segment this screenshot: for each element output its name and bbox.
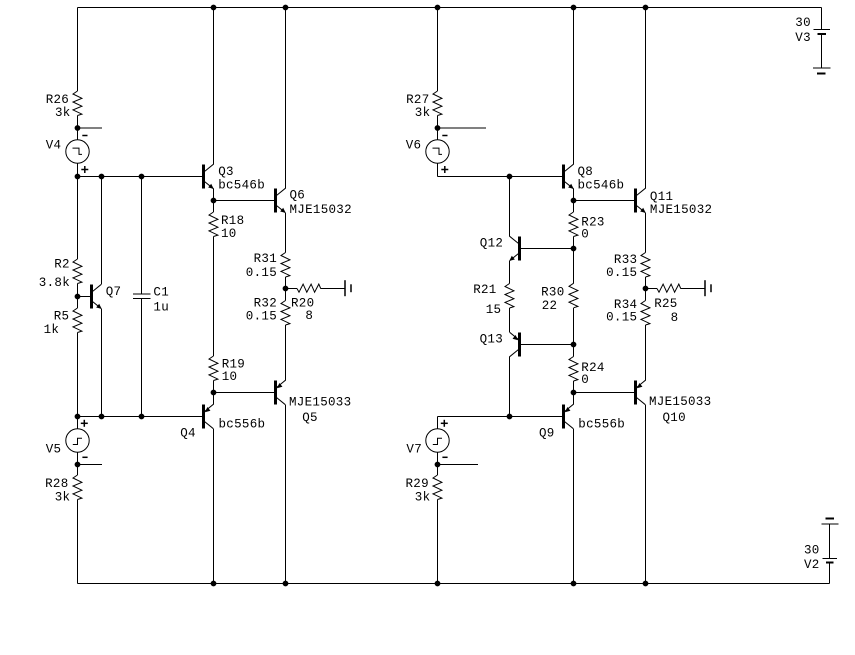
resistor R28 3k [45,475,82,504]
transistor Q10 MJE15033 [634,380,711,425]
svg-text:R29: R29 [406,477,429,491]
wire R26 to V4 [77,116,79,140]
wire R34 to Q10 emitter [645,325,647,380]
wire V7 plus row to Q9 base [438,416,563,418]
svg-text:0: 0 [581,228,589,242]
node bottom rail / Q10 collector [643,581,648,586]
svg-text:0.15: 0.15 [246,266,277,280]
resistor R34 0.15 [606,298,650,325]
node Q3 emitter / Q6 base [211,198,216,203]
svg-text:Q7: Q7 [106,285,122,299]
capacitor C1 1u [133,177,169,417]
wire Q11 collector to top rail [645,8,647,189]
svg-text:Q5: Q5 [302,411,318,425]
svg-text:10: 10 [222,370,238,384]
node R27/V6 [435,126,440,131]
wire Q9 collector to bottom rail [573,429,575,584]
svg-text:V2: V2 [804,558,820,572]
wire R21 to Q13 emitter [509,308,511,332]
resistor R27 3k [406,91,442,120]
svg-text:V6: V6 [406,139,422,153]
resistor R24 0 [569,357,605,388]
svg-text:15: 15 [486,303,502,317]
svg-text:Q6: Q6 [290,188,306,202]
svg-text:3k: 3k [55,490,71,504]
wire left rail top [77,8,79,92]
svg-text:R2: R2 [54,258,70,272]
node R19 / Q5 base / Q4 emitter [211,390,216,395]
wire node to R18 [213,201,215,213]
svg-text:3k: 3k [415,106,431,120]
node C1 bottom [139,414,144,419]
svg-text:Q11: Q11 [650,190,673,204]
node C1 top [139,174,144,179]
wire R33 to output node [645,277,647,301]
ground above V2 [822,519,839,525]
svg-text:8: 8 [305,309,313,323]
wire Q7 emitter [101,309,103,417]
wire R32 to Q5 emitter [285,325,287,380]
voltage source V7 [406,417,449,465]
resistor R23 0 [569,212,605,242]
node top rail / Q11 collector [643,5,648,10]
resistor R21 15 [473,283,514,317]
transistor Q11 MJE15032 [634,188,712,217]
wire R27 to top rail [437,8,439,92]
svg-text:R27: R27 [406,93,429,107]
battery V2 [804,544,837,573]
svg-text:V5: V5 [46,442,62,456]
svg-text:Q4: Q4 [180,427,196,441]
svg-text:Q13: Q13 [480,333,503,347]
svg-text:MJE15032: MJE15032 [290,203,352,217]
wire Q6 base [214,200,275,202]
node Q7 collector [99,174,104,179]
wire node to Q4 emitter [213,393,215,405]
transistor Q3 bc546b [202,164,265,192]
resistor R30 22 [541,283,578,313]
wire R20 to probe [321,288,345,290]
node Q7 emitter [99,414,104,419]
svg-text:R25: R25 [654,297,677,311]
transistor Q7 [90,284,121,309]
svg-text:Q3: Q3 [218,165,234,179]
node Q12 base / R23 / R30 [571,246,576,251]
wire output node to R20 [286,288,298,290]
wire node to R23 [573,201,575,213]
svg-text:10: 10 [221,227,237,241]
svg-text:R21: R21 [473,283,496,297]
resistor R25 8 [654,284,681,325]
wire V5 to R28 [77,465,79,476]
node output right (R33/R34/R25) [643,286,648,291]
wire bottom -30V rail [78,583,830,585]
wire Q12 collector [509,177,511,237]
node V6 row / Q12 collector [507,174,512,179]
resistor R29 3k [406,475,442,504]
wire Q6 emitter to R31 [285,213,287,253]
wire V5 plus row to Q4 base [78,416,203,418]
node R2/R5/Q7 base [75,294,80,299]
wire Q10 collector to bottom rail [645,405,647,584]
wire R2 to R5 [77,284,79,309]
wire Q3 emitter to node [213,189,215,201]
svg-text:22: 22 [542,299,558,313]
node V5 minus [75,462,80,467]
svg-text:bc556b: bc556b [219,418,266,432]
resistor R32 0.15 [246,297,290,326]
wire Q13 base [521,344,574,346]
svg-text:30: 30 [804,544,820,558]
wire V2 to bottom rail [829,563,831,584]
svg-text:C1: C1 [153,286,169,300]
resistor R19 10 [209,356,245,384]
node R26/V4 [75,126,80,131]
wire V6 plus row to Q8 base [438,176,563,178]
wire Q3 collector to top rail [213,8,215,165]
wire Q11 base [574,200,635,202]
wire stub at V5 minus node [78,464,103,466]
svg-text:3k: 3k [415,490,431,504]
wire R29 to bottom rail [437,500,439,584]
wire V7 to R29 [437,465,439,476]
svg-text:R28: R28 [45,477,68,491]
wire V6 to plus row [437,163,439,176]
node bottom rail / R29 [435,581,440,586]
wire Q12 emitter to R21 [509,261,511,284]
node Q13 collector / V7 row [507,414,512,419]
svg-text:3.8k: 3.8k [39,276,70,290]
wire Q8 collector to top rail [573,8,575,165]
node R24 / Q10 base / Q9 emitter [571,390,576,395]
wire Q11 emitter to R33 [645,213,647,253]
svg-text:Q10: Q10 [663,411,686,425]
node bottom rail / Q4 collector [211,581,216,586]
wire R31 to output node [285,277,287,301]
svg-text:R30: R30 [541,286,564,300]
wire Q4 collector to bottom rail [213,429,215,584]
transistor Q12 [480,236,521,261]
current probe I left [345,280,351,296]
resistor R2 3.8k [39,258,82,291]
transistor Q9 bc556b [539,404,625,440]
voltage source V5 [46,417,90,465]
node V7 minus [435,462,440,467]
node Q8 emitter / Q11 base [571,198,576,203]
wire Q7 base [78,296,91,298]
wire stub at V7 minus node [438,464,479,466]
svg-text:V7: V7 [406,442,422,456]
resistor R18 10 [209,212,244,241]
wire Q7 collector [101,177,103,285]
wire Q5 base [214,392,275,394]
wire stub at V6 minus node [438,127,487,129]
wire R27 to V6 [437,116,439,140]
svg-text:0.15: 0.15 [606,310,637,324]
wire Q13 base node to R24 [573,345,575,357]
svg-text:R31: R31 [254,252,277,266]
resistor R33 0.15 [606,253,650,280]
wire top +30V rail [78,7,822,9]
transistor Q8 bc546b [562,164,624,192]
svg-text:MJE15033: MJE15033 [649,395,711,409]
node bottom rail / Q5 collector [283,581,288,586]
node top rail / Q3 collector [211,5,216,10]
svg-text:R32: R32 [254,297,277,311]
wire V3 to ground [821,35,823,69]
node top rail / Q8 collector [571,5,576,10]
wire left rail V4 to R2 [77,177,79,260]
svg-text:MJE15033: MJE15033 [289,395,351,409]
wire V3 to top rail [821,8,823,30]
wire R19 to node [213,381,215,393]
svg-text:R26: R26 [46,93,69,107]
transistor Q5 MJE15033 [274,380,351,425]
wire Q12 base [521,248,574,250]
svg-text:bc556b: bc556b [578,418,625,432]
svg-text:Q8: Q8 [578,165,594,179]
node left rail / V5 plus [75,414,80,419]
svg-text:Q9: Q9 [539,427,555,441]
wire V4 to plus node [77,163,79,176]
resistor R31 0.15 [246,252,290,280]
wire output node to R25 [646,288,658,290]
svg-text:30: 30 [795,16,811,30]
wire node to Q9 emitter [573,393,575,405]
wire ground to V2 [829,525,831,559]
svg-text:1k: 1k [44,323,60,337]
node top rail / Q6 collector [283,5,288,10]
wire R30 to Q13 base node [573,308,575,345]
svg-text:0.15: 0.15 [606,266,637,280]
wire R24 to node [573,381,575,393]
wire R5 to V5 row [77,333,79,417]
svg-text:3k: 3k [55,106,71,120]
wire R28 to bottom rail [77,500,79,584]
svg-text:R18: R18 [221,214,244,228]
wire Q6 collector to top rail [285,8,287,189]
wire Q12 base node to R30 [573,249,575,284]
svg-text:1u: 1u [153,301,169,315]
transistor Q13 [480,332,521,357]
svg-text:bc546b: bc546b [218,178,265,192]
svg-text:V4: V4 [46,139,62,153]
svg-text:Q12: Q12 [480,237,503,251]
node bottom rail / Q9 collector [571,581,576,586]
node output left (R31/R32/R20) [283,286,288,291]
svg-text:0: 0 [581,373,589,387]
current probe I right [705,280,711,296]
voltage source V4 [46,136,90,174]
transistor Q4 bc556b [180,404,265,440]
node Q13 base / R30 / R24 [571,342,576,347]
wire R25 to probe [681,288,705,290]
resistor R5 1k [44,308,82,337]
svg-text:MJE15032: MJE15032 [650,203,712,217]
wire R18 to R19 [213,237,215,357]
resistor R26 3k [46,91,82,120]
svg-text:bc546b: bc546b [578,178,625,192]
wire stub at V4 minus node [78,127,103,129]
wire R23 to Q12 base node [573,237,575,249]
wire Q8 emitter to node [573,189,575,201]
transistor Q6 MJE15032 [274,188,352,217]
wire Q5 collector to bottom rail [285,405,287,584]
svg-text:8: 8 [671,311,679,325]
svg-text:V3: V3 [795,31,811,45]
ground below V3 [813,68,831,74]
svg-text:0.15: 0.15 [246,309,277,323]
wire Q10 base [574,392,635,394]
node V4 plus [75,174,80,179]
battery V3 [795,16,830,45]
svg-text:R5: R5 [54,309,70,323]
voltage source V6 [406,136,449,174]
node top rail / R27 [435,5,440,10]
wire V4 plus row to Q3 base [78,176,203,178]
resistor R20 8 [291,284,321,323]
wire Q13 collector down [509,357,511,417]
